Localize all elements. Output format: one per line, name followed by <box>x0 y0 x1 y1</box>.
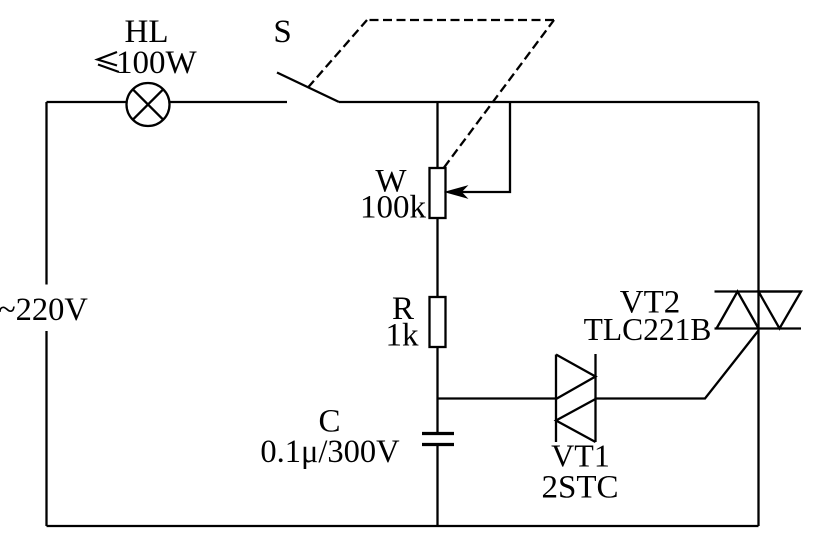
wire node to diac VT1 <box>438 397 557 399</box>
wire lamp to switch <box>170 101 288 103</box>
wire bottom horizontal <box>47 525 759 527</box>
triac VT2 top bar <box>715 290 802 292</box>
svg-text:1k: 1k <box>386 318 420 354</box>
wire switch to top-right corner <box>339 101 759 103</box>
lamp HL circle <box>127 83 170 126</box>
wire diac VT1 to triac gate <box>596 331 759 399</box>
svg-text:~220V: ~220V <box>0 292 88 328</box>
svg-text:VT1: VT1 <box>551 438 610 474</box>
wire capacitor to bottom <box>436 446 438 526</box>
dashed link switch to top <box>308 20 367 88</box>
node 220V white backing <box>0 285 90 332</box>
dashed link top to potentiometer <box>444 20 554 168</box>
svg-text:100k: 100k <box>360 190 427 226</box>
wire resistor to capacitor node <box>436 347 438 433</box>
wire left vertical (~220V side) <box>45 102 47 526</box>
diac VT1 top triangle <box>556 355 596 400</box>
diac VT1 right bar <box>594 354 596 442</box>
svg-text:S: S <box>273 14 291 50</box>
diac VT1 bottom triangle <box>556 399 596 442</box>
potentiometer W body <box>430 168 446 218</box>
diac VT1 left bar <box>555 355 557 443</box>
triac VT2 right triangle <box>759 292 802 329</box>
wire wiper drop <box>450 102 510 192</box>
wire top-left to lamp <box>47 101 127 103</box>
wire potentiometer to resistor R <box>436 218 438 297</box>
svg-text:2STC: 2STC <box>541 470 618 506</box>
wire right vertical <box>757 102 759 526</box>
triac VT2 left triangle <box>717 292 759 329</box>
wiper arrowhead <box>446 186 467 197</box>
svg-text:100W: 100W <box>116 45 198 81</box>
lamp HL cross <box>133 89 163 119</box>
svg-text:TLC221B: TLC221B <box>584 312 712 347</box>
resistor R body <box>430 297 446 347</box>
wire top to potentiometer W <box>436 102 438 168</box>
capacitor C top plate <box>422 432 454 435</box>
dashed link top horizontal <box>367 19 554 21</box>
label less-or-equal symbol <box>98 52 120 72</box>
capacitor C bottom plate <box>422 443 454 446</box>
svg-text:0.1μ/300V: 0.1μ/300V <box>260 434 400 470</box>
switch S blade <box>277 73 339 103</box>
triac VT2 bottom bar <box>715 327 802 329</box>
